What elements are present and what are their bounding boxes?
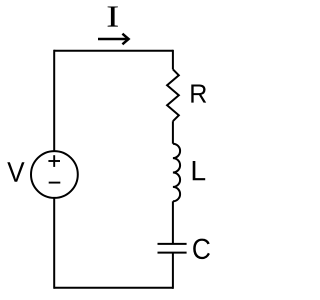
voltage source V1 xyxy=(31,151,78,198)
minus sign xyxy=(49,182,61,184)
label I xyxy=(108,7,118,27)
capacitor C top plate xyxy=(158,243,187,245)
wire right mid1 xyxy=(172,121,174,144)
resistor R xyxy=(167,69,179,121)
wire top xyxy=(54,50,173,52)
label R xyxy=(191,85,206,103)
capacitor C bottom plate xyxy=(158,252,187,254)
wire left lower xyxy=(53,198,55,289)
label V xyxy=(7,162,24,182)
plus sign xyxy=(48,155,60,167)
wire bottom xyxy=(54,287,173,289)
label C xyxy=(193,239,210,260)
inductor L xyxy=(173,144,180,202)
wire right upper xyxy=(172,50,174,70)
wire right mid2 xyxy=(172,201,174,243)
wire left upper xyxy=(53,50,55,151)
wire right lower xyxy=(172,253,174,289)
label L xyxy=(193,161,206,180)
current arrow xyxy=(98,34,129,45)
